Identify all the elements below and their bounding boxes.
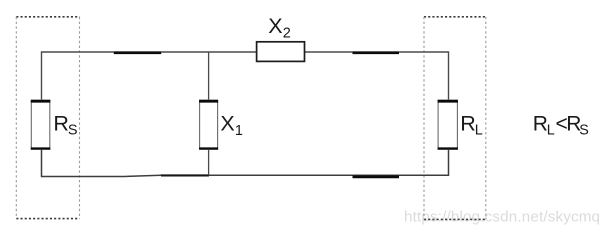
wire: X1 branch vertical [208, 52, 210, 100]
source dashed box (left) [16, 17, 79, 219]
label X1 [220, 112, 243, 140]
svg-text:R: R [533, 112, 548, 135]
svg-text:X: X [268, 14, 282, 38]
svg-text:L: L [547, 122, 555, 138]
wire: bottom rail [42, 149, 449, 176]
resistor RS body [31, 100, 51, 149]
label RS [53, 112, 77, 139]
svg-text:S: S [579, 122, 589, 138]
svg-text:S: S [68, 123, 78, 139]
svg-text:X: X [220, 112, 234, 136]
wire: bottom rail thick segment right [353, 175, 400, 178]
svg-text:R: R [460, 112, 476, 136]
annotation RL&lt;RS [533, 112, 589, 138]
svg-text:1: 1 [235, 123, 243, 139]
wire: top rail thick segment right [353, 52, 400, 55]
svg-text:L: L [475, 123, 483, 139]
resistor RL body [438, 100, 458, 149]
svg-text:R: R [53, 112, 69, 136]
load dashed box (right) [424, 17, 486, 220]
wire: top rail left segment [42, 52, 257, 100]
label X2 [268, 14, 291, 41]
wire: top rail thick segment left [114, 52, 161, 55]
wire: top rail right segment [305, 52, 449, 100]
label RL [460, 112, 483, 139]
svg-text:https://blog.csdn.net/skycmq: https://blog.csdn.net/skycmq [404, 208, 600, 225]
wire: bottom rail thick segment middle [161, 174, 209, 176]
reactance X2 body [257, 42, 305, 62]
svg-text:2: 2 [283, 25, 291, 41]
reactance X1 body [199, 100, 218, 149]
